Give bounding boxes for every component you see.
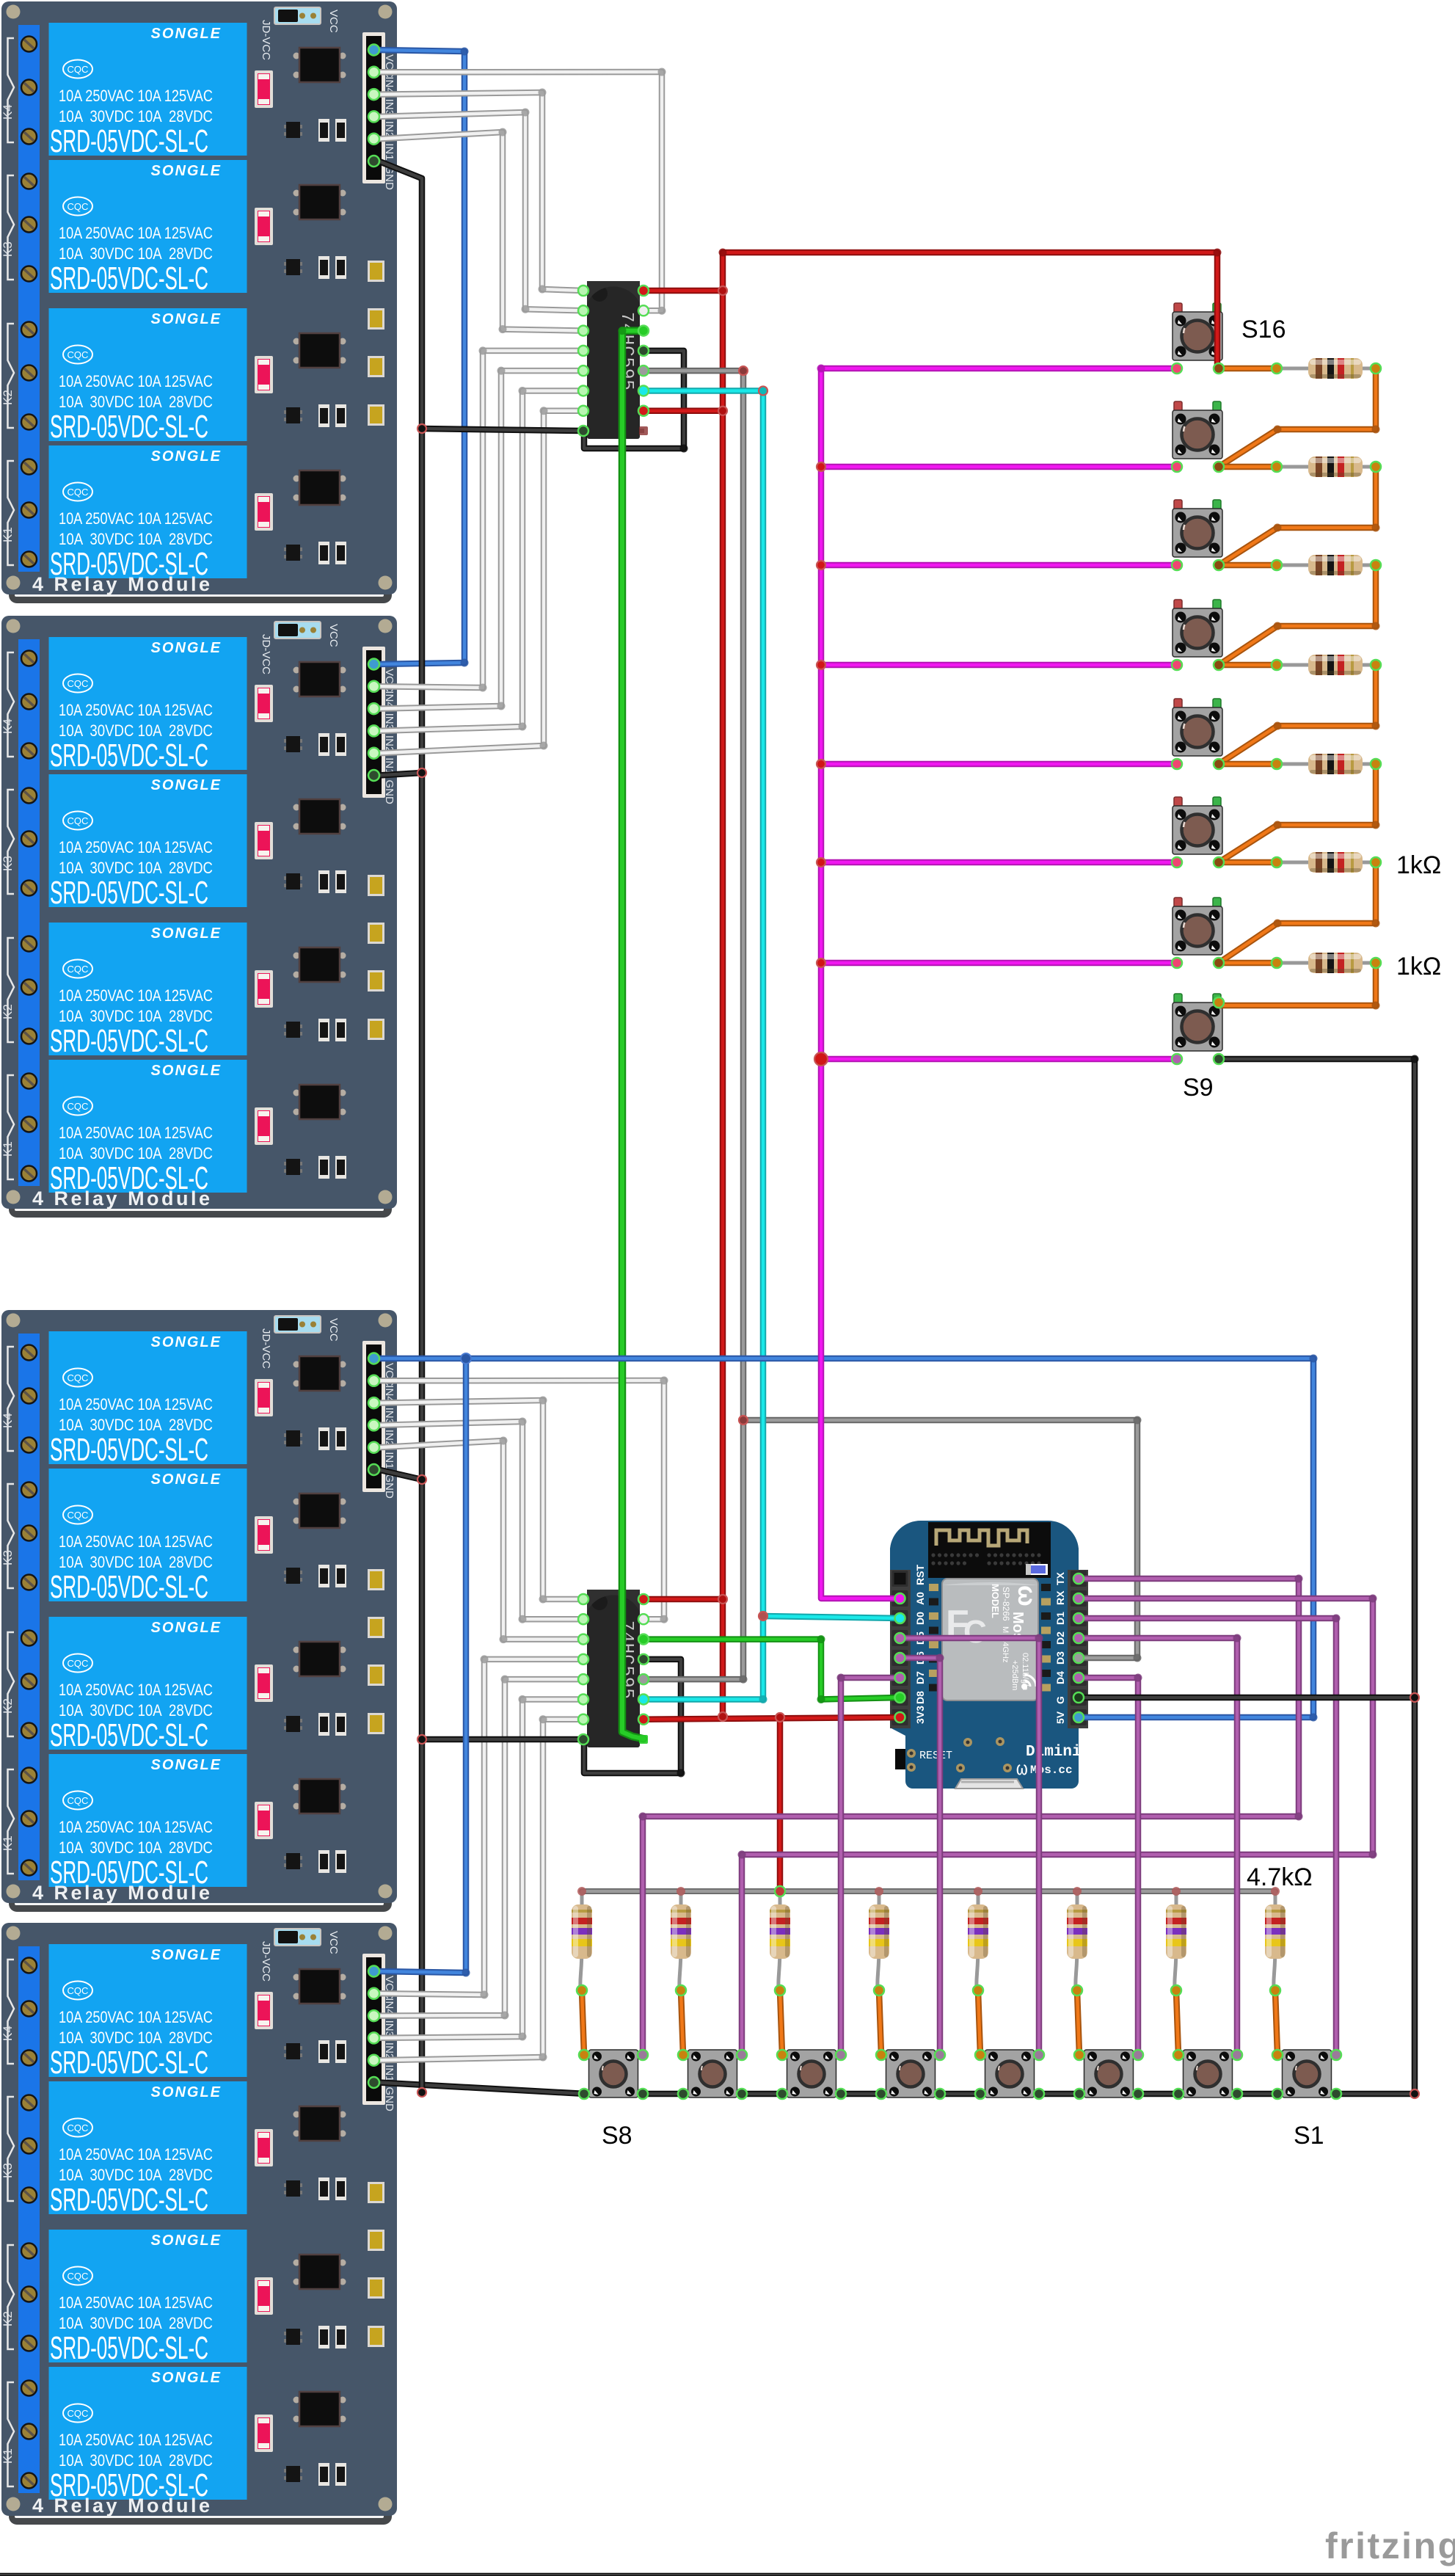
- resistor R15 1k (brown-black-red): [1277, 456, 1390, 479]
- wire D1mini D7 to S6: [841, 1678, 900, 2055]
- wire clock junction to U2 SHCP: [643, 1616, 763, 1699]
- wire M3.IN3 to U2 pin QA: [379, 1400, 583, 1599]
- svg-text:ω: ω: [1013, 1585, 1040, 1607]
- wire bottom GND rail: [0, 2573, 1455, 2576]
- wire S10 to R10: [1219, 960, 1277, 967]
- wire U1 Q7S to U2 DS chain: [622, 331, 643, 1739]
- wire key bus to S15: [821, 464, 1177, 470]
- wire U2 OE loop: [584, 1659, 681, 1773]
- wire 4.7k pull-up bus (gray): [582, 1888, 1275, 1894]
- wire S14 to R14: [1219, 562, 1277, 569]
- wire M3.GND stub: [379, 1470, 422, 1480]
- wire GND bus to U2 GND: [422, 1736, 583, 1743]
- wire S15 to R15: [1219, 464, 1277, 470]
- wire 3V3 branch to 4.7k bus: [777, 1717, 784, 1891]
- svg-text:M 2.4GHz: M 2.4GHz: [1001, 1626, 1010, 1663]
- wire bend points and junctions: [417, 48, 1419, 2099]
- wire U1 VCC to bus: [643, 288, 723, 294]
- svg-text:D1mini: D1mini: [1026, 1744, 1082, 1761]
- svg-text:D1: D1: [1054, 1612, 1066, 1625]
- svg-text:S1: S1: [1294, 2122, 1324, 2150]
- shift register U1 74HC595: [583, 281, 644, 439]
- wire key bus to S9: [821, 1056, 1177, 1063]
- svg-text:D2: D2: [1054, 1631, 1066, 1645]
- resistor R10 1k (brown-black-red): [1277, 952, 1390, 975]
- resistor R2 4.7k (yellow-violet-red): [1166, 1891, 1186, 1990]
- wire R14 to S13: [1219, 565, 1376, 665]
- svg-text:1kΩ: 1kΩ: [1396, 953, 1441, 980]
- svg-text:S8: S8: [602, 2122, 632, 2150]
- wire U1 STCP to U2 STCP: [643, 371, 743, 1679]
- pushbutton S11: [1173, 797, 1222, 854]
- pushbutton S7: [688, 2050, 737, 2097]
- pushbutton S13: [1173, 600, 1222, 657]
- resistor R11 1k (brown-black-red): [1277, 851, 1390, 874]
- svg-text:SP-8266: SP-8266: [1001, 1587, 1011, 1621]
- wire D1mini D6 to S5: [900, 1658, 941, 2055]
- svg-text:MODEL: MODEL: [990, 1584, 1001, 1618]
- wire D1mini RX to S7: [742, 1598, 1373, 2055]
- resistor R3 4.7k (yellow-violet-red): [1067, 1891, 1087, 1990]
- wire GND bus M2 segment: [379, 429, 422, 776]
- wire D1mini G to GND rail: [1079, 1695, 1415, 1701]
- wire R1 to S1: [1275, 1991, 1277, 2054]
- pushbutton S10: [1173, 898, 1222, 955]
- pushbutton S4: [985, 2050, 1035, 2097]
- resistor R13 1k (brown-black-red): [1277, 654, 1390, 677]
- wire U2 MR to D1mini 3V3: [643, 1717, 900, 1720]
- pushbutton S6: [787, 2050, 836, 2097]
- component pin connection rings: [368, 45, 1381, 2100]
- svg-text:D4: D4: [1054, 1671, 1066, 1684]
- wire M2.IN1 to U1 pin QH: [379, 411, 583, 753]
- relay module M1 (4 Relay Module): [1, 1, 397, 603]
- svg-text:4.7kΩ: 4.7kΩ: [1247, 1863, 1313, 1891]
- wire D1mini D2 to S2: [1079, 1638, 1237, 2055]
- svg-text:1kΩ: 1kΩ: [1396, 851, 1441, 879]
- svg-text:5V: 5V: [1054, 1711, 1066, 1724]
- wire M2.IN3 to U1 pin QF: [379, 371, 583, 708]
- wire M3.VCC branch to M4.VCC: [379, 1358, 466, 1973]
- wire M2.IN4 to U1 pin QE: [379, 351, 583, 688]
- wire GND bus module4 to S8..S1: [379, 2083, 1335, 2095]
- wire M1.IN1 to U1 pin QD: [379, 132, 583, 331]
- svg-text:3V3: 3V3: [914, 1706, 926, 1724]
- wire S13 to R13: [1219, 662, 1277, 669]
- wire M4.IN4 to U2 pin QE: [379, 1659, 583, 1995]
- wire M3.IN1 to U2 pin QD: [379, 1441, 583, 1640]
- svg-text:G: G: [1054, 1696, 1066, 1704]
- svg-text:D0: D0: [914, 1612, 926, 1625]
- wire key bus to S16: [821, 365, 1177, 372]
- wire S9 to GND rail: [1219, 1059, 1415, 2094]
- svg-text:RST: RST: [914, 1565, 926, 1585]
- wire M3.IN2 to U2 pin QC: [379, 1422, 583, 1619]
- wire R11 to S10: [1219, 862, 1376, 963]
- wire D1mini D5 to S4: [900, 1638, 1040, 2055]
- relay module M4 (4 Relay Module): [1, 1923, 397, 2525]
- wire U2 DS to D1mini D8: [643, 1640, 900, 1700]
- wire S1 to GND rail: [1335, 2091, 1415, 2097]
- wire R5 to S5: [879, 1991, 881, 2054]
- resistor R1 4.7k (yellow-violet-red): [1265, 1891, 1286, 1990]
- svg-text:A0: A0: [914, 1592, 926, 1605]
- wire R2 to S2: [1176, 1991, 1178, 2054]
- wire D1mini TX to S8: [643, 1579, 1299, 2055]
- wire GND bus to M4 junction: [419, 1739, 426, 2092]
- wire GND bus M3-U2 segment: [419, 1480, 426, 1739]
- resistor R8 4.7k (yellow-violet-red): [572, 1891, 592, 1990]
- svg-text:TX: TX: [1054, 1571, 1066, 1585]
- wire key-row bus to D1mini A0: [821, 368, 900, 1598]
- wire clock junction to D1mini D0: [763, 1616, 900, 1618]
- resistor R5 4.7k (yellow-violet-red): [869, 1891, 889, 1990]
- svg-text:D7: D7: [914, 1671, 926, 1684]
- wire D1mini D4 to S3: [1079, 1678, 1138, 2055]
- resistor R12 1k (brown-black-red): [1277, 753, 1390, 776]
- pushbutton S1: [1283, 2050, 1332, 2097]
- pushbutton S9: [1173, 994, 1222, 1051]
- svg-text:D8: D8: [914, 1691, 926, 1704]
- wire R4 to S4: [978, 1991, 980, 2054]
- wire S11 to R11: [1219, 859, 1277, 866]
- wire M4.IN3 to U2 pin QF: [379, 1679, 583, 2015]
- wire S12 to R12: [1219, 761, 1277, 768]
- svg-text:ω: ω: [1016, 1758, 1028, 1780]
- wire S16 to R16: [1219, 365, 1277, 372]
- wire R16 to S15: [1219, 368, 1376, 467]
- pushbutton S5: [886, 2050, 936, 2097]
- pushbutton S12: [1173, 699, 1222, 756]
- wire red bus vertical to S16: [723, 252, 1217, 1717]
- wire R12 to S11: [1219, 764, 1376, 862]
- wire M1.IN4 to U1 pin QB: [379, 72, 662, 310]
- svg-text:fritzing: fritzing: [1325, 2525, 1455, 2566]
- resistor R14 1k (brown-black-red): [1277, 554, 1390, 577]
- pushbutton S16: [1173, 303, 1222, 360]
- wire key bus to S11: [821, 859, 1177, 866]
- wire U1 OE loop: [584, 351, 684, 448]
- resistor R7 4.7k (yellow-violet-red): [671, 1891, 691, 1990]
- relay module M3 (4 Relay Module): [1, 1310, 397, 1912]
- wire M2.IN2 to U1 pin QG: [379, 390, 583, 730]
- wire key bus to S10: [821, 960, 1177, 967]
- wire U1 SHCP to junction: [643, 390, 763, 1616]
- wire M3.VCC to D1mini 5V: [379, 1358, 1313, 1717]
- wire M1.IN3 to U1 pin QA: [379, 92, 583, 291]
- wire R6 to S6: [780, 1991, 782, 2054]
- wire key bus to S13: [821, 662, 1177, 669]
- pushbutton S15: [1173, 401, 1222, 459]
- wire M4.IN2 to U2 pin QG: [379, 1699, 583, 2037]
- wire R7 to S7: [681, 1991, 683, 2054]
- wire M1.GND down bus: [379, 161, 422, 429]
- svg-text:S16: S16: [1241, 316, 1286, 343]
- wire R13 to S12: [1219, 665, 1376, 764]
- resistor R16 1k (brown-black-red): [1277, 357, 1390, 380]
- resistor R6 4.7k (yellow-violet-red): [770, 1891, 790, 1990]
- relay module M2 (4 Relay Module): [1, 616, 397, 1218]
- wire GND bus M2-M3 segment: [419, 773, 426, 1480]
- wire GND bus to U1 GND: [422, 429, 583, 431]
- shift register U2 74HC595: [583, 1590, 644, 1747]
- svg-text:C: C: [963, 1614, 987, 1650]
- WeMos D1 mini U3: [890, 1521, 1088, 1789]
- wire R8 to S8: [582, 1991, 584, 2054]
- wire R15 to S14: [1219, 467, 1376, 565]
- svg-text:RESET: RESET: [919, 1750, 952, 1762]
- wire R3 to S3: [1077, 1991, 1079, 2054]
- wire D1mini D1 to S1: [1079, 1618, 1336, 2055]
- wire M3.IN4 to U2 pin QB: [379, 1380, 664, 1619]
- svg-text:RX: RX: [1054, 1590, 1066, 1605]
- wire latch branch to D1mini D3: [743, 1420, 1137, 1658]
- pushbutton S3: [1084, 2050, 1134, 2097]
- resistor R4 4.7k (yellow-violet-red): [968, 1891, 988, 1990]
- pushbutton S2: [1184, 2050, 1233, 2097]
- wire key bus to S14: [821, 562, 1177, 569]
- pushbutton S8: [589, 2050, 638, 2097]
- wire M4.IN1 to U2 pin QH: [379, 1720, 583, 2060]
- svg-text:S9: S9: [1183, 1074, 1214, 1102]
- wire M1.VCC to M2.VCC (5V): [379, 50, 464, 664]
- svg-text:D3: D3: [1054, 1651, 1066, 1664]
- wire U2 VCC to bus: [643, 1596, 723, 1603]
- wire R10 to S9: [1219, 963, 1376, 1005]
- pushbutton S14: [1173, 500, 1222, 557]
- wire M1.IN2 to U1 pin QC: [379, 112, 583, 310]
- wire key bus to S12: [821, 761, 1177, 768]
- svg-text:+25dBm: +25dBm: [1010, 1660, 1019, 1690]
- wire U1 MR to bus: [643, 407, 723, 414]
